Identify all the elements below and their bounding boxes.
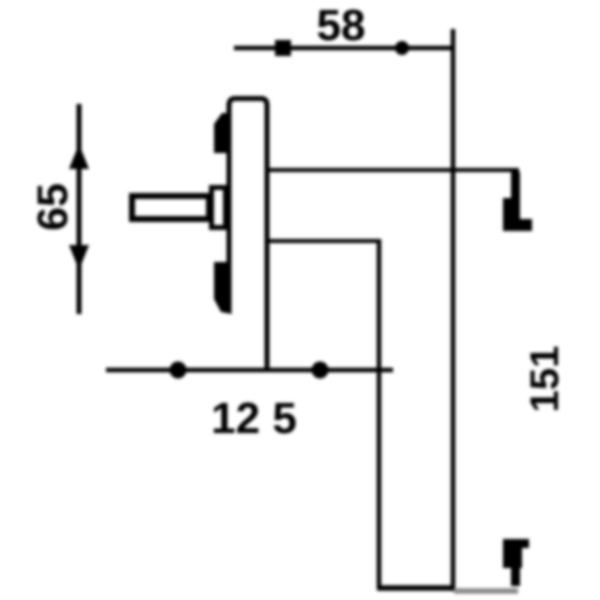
svg-text:58: 58 bbox=[317, 1, 366, 50]
svg-text:65: 65 bbox=[29, 183, 77, 231]
svg-text:151: 151 bbox=[523, 346, 567, 413]
svg-text:12 5: 12 5 bbox=[211, 394, 297, 443]
